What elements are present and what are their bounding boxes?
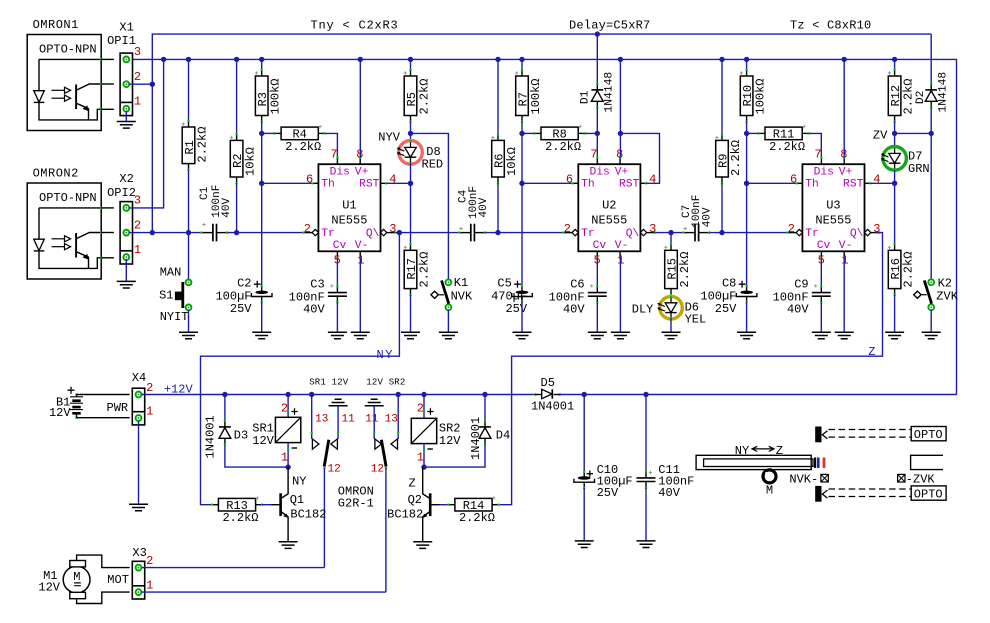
switch K1 NVK limit switch [446, 279, 452, 285]
wire X3 pin2 to SR1 contact 12 [142, 567, 325, 569]
svg-text:2.2kΩ: 2.2kΩ [901, 78, 915, 114]
svg-text:YEL: YEL [685, 312, 707, 326]
svg-text:SR1 12V: SR1 12V [309, 377, 349, 387]
svg-text:12V SR2: 12V SR2 [366, 377, 405, 387]
junction R15 branch [668, 230, 673, 235]
wire V+2 from rail [619, 59, 621, 157]
wire down to C5 [521, 183, 523, 286]
svg-text:NVK-: NVK- [789, 472, 818, 486]
svg-text:NYIT: NYIT [160, 310, 189, 324]
junction ZV node [892, 131, 897, 136]
svg-text:12: 12 [371, 463, 384, 475]
svg-text:3: 3 [873, 222, 880, 236]
resistor R10 100k [746, 59, 748, 69]
switch S1 MAN/NYIT manual trigger [188, 233, 190, 280]
wire timing node down to Th row [261, 133, 263, 183]
LED D8 RED indicator [410, 133, 412, 141]
IC U1 NE555 timer [336, 158, 338, 165]
wire D8 to RST1 node [410, 164, 412, 184]
svg-text:NYV: NYV [378, 131, 400, 145]
wire node down to Th2 [521, 133, 523, 183]
svg-text:MOT: MOT [107, 573, 129, 587]
svg-text:1: 1 [281, 451, 288, 465]
ground C5 [513, 332, 532, 339]
relay SR1 lever to pin 12 [324, 440, 329, 467]
wire top trigger rail (Tny net) [152, 34, 931, 233]
wire NYV node to K1 [411, 133, 449, 279]
relay SR2 contact 11 [373, 406, 375, 439]
wire M1 to X3 pin2 [77, 555, 130, 568]
svg-text:V+: V+ [839, 167, 853, 179]
junction Th3 node [744, 181, 749, 186]
junction SR1 contact 13 [309, 392, 314, 397]
wire R8 left [522, 132, 535, 134]
junction D4 [482, 392, 487, 397]
svg-text:Th: Th [805, 179, 819, 191]
junction R2 bottom [234, 230, 239, 235]
svg-text:U2: U2 [602, 199, 616, 213]
svg-text:DLY: DLY [632, 302, 654, 316]
relay coil SR2 12V [423, 395, 425, 419]
svg-text:1N4148: 1N4148 [604, 72, 616, 113]
svg-text:Q\: Q\ [366, 228, 380, 240]
wire net NY from U1 output to R13 [201, 233, 400, 505]
wire R1 bottom to trigger row [188, 170, 190, 233]
wire C3 to ground [336, 303, 338, 333]
wire C6 to ground [596, 303, 598, 333]
wire R13 to Q1 base [262, 504, 272, 506]
svg-text:K2: K2 [938, 276, 952, 290]
wire X1 pin2 to trigger column [129, 83, 152, 85]
wire R10 bottom to node [746, 122, 748, 134]
wire net Z from U3 output to R14 [499, 233, 883, 505]
ground R16 [885, 332, 904, 339]
wire C8 to ground [746, 302, 748, 332]
svg-text:OPTO: OPTO [914, 487, 943, 501]
transistor Q2 BC182 NPN mirrored [440, 504, 449, 506]
svg-text:Tr: Tr [321, 228, 335, 240]
svg-text:Q\: Q\ [850, 228, 864, 240]
resistor R5 2.2k [410, 59, 412, 69]
svg-text:2: 2 [146, 554, 153, 568]
wire U1 output Q row [395, 232, 460, 234]
slider bar outline [696, 455, 811, 469]
svg-text:1: 1 [357, 253, 364, 267]
junction R3/R4 node [259, 131, 264, 136]
wire C5 to ground [521, 302, 523, 332]
ground V-1 [351, 332, 370, 339]
opto sensor top bracket [815, 427, 821, 443]
svg-text:25V: 25V [230, 302, 252, 316]
wire V-2 to ground [619, 258, 621, 332]
capacitor C11 100nF 40V [645, 395, 647, 472]
svg-text:1: 1 [417, 451, 424, 465]
wire SR2 pin12 to X3.1 [385, 468, 387, 592]
svg-text:D3: D3 [234, 428, 248, 442]
wire RST1 to U1 [386, 182, 410, 184]
svg-text:10kΩ: 10kΩ [505, 147, 519, 176]
svg-text:PWR: PWR [107, 401, 129, 415]
svg-text:12V: 12V [252, 434, 274, 448]
resistor R7 100k [521, 59, 523, 69]
ground V-2 [611, 332, 630, 339]
wire R4 left [262, 132, 275, 134]
capacitor C1 100nF 40V [202, 232, 213, 234]
wire X2 pin3 to +12V rail [129, 59, 163, 208]
svg-text:25V: 25V [597, 486, 619, 500]
svg-text:OPI1: OPI1 [107, 34, 136, 48]
svg-text:C1: C1 [199, 186, 211, 200]
wire +12V distribution row [142, 394, 535, 396]
svg-text:2.2kΩ: 2.2kΩ [769, 140, 805, 154]
wire RST2 tie jog [620, 133, 659, 183]
wire R7 bottom to node [521, 122, 523, 134]
capacitor C10 100uF 25V [583, 395, 585, 472]
svg-text:2.2kΩ: 2.2kΩ [222, 511, 258, 525]
wire RST3 to U3 [870, 182, 894, 184]
junction C11 [643, 392, 648, 397]
wire R17 to ground [410, 295, 412, 332]
junction X1.2 [150, 82, 155, 87]
svg-text:Tr: Tr [805, 228, 819, 240]
wire V+3 from rail [843, 59, 845, 157]
switch K2 ZVK limit switch [928, 279, 934, 285]
junction X2.3 on rail [161, 57, 166, 62]
wire M1 to X3 pin1 [77, 592, 130, 603]
diode D5 1N4001 supply isolation [534, 393, 536, 395]
svg-text:M: M [766, 484, 773, 498]
svg-text:U3: U3 [826, 199, 840, 213]
resistor R14 2.2k base resistor [449, 504, 455, 506]
wire R12 to ZV node [894, 122, 896, 134]
svg-text:Tny < C2xR3: Tny < C2xR3 [311, 18, 399, 32]
junction R10/R11 node [744, 131, 749, 136]
svg-text:1: 1 [134, 243, 141, 257]
junction SR2 coil / Q2 collector [421, 464, 426, 469]
svg-text:2.2kΩ: 2.2kΩ [195, 127, 209, 163]
ground C8 [737, 332, 756, 339]
svg-text:OPTO-NPN: OPTO-NPN [39, 43, 97, 57]
svg-text:V-: V- [615, 240, 629, 252]
wire R5 to LED node [410, 122, 412, 134]
wire K2 to ground [930, 310, 932, 332]
ground C9 [812, 332, 831, 339]
junction NY branch [397, 230, 402, 235]
capacitor C8 100uF 25V polarized [746, 286, 748, 292]
svg-text:D5: D5 [541, 376, 555, 390]
svg-text:1: 1 [134, 95, 141, 109]
svg-text:Cv: Cv [333, 240, 347, 252]
capacitor C9 100nF 40V [820, 258, 822, 287]
svg-text:S1: S1 [159, 288, 173, 302]
wire D2 anode to ZV node [930, 108, 932, 134]
svg-text:7: 7 [814, 148, 821, 162]
svg-text:Tz < C8xR10: Tz < C8xR10 [790, 18, 871, 32]
diode D1 1N4148 from trigger rail [596, 34, 598, 84]
svg-text:GRN: GRN [908, 162, 930, 176]
svg-text:M: M [73, 570, 80, 584]
svg-text:MAN: MAN [160, 266, 182, 280]
wire node down to Th3 [746, 133, 748, 183]
IC U2 NE555 timer [596, 158, 598, 165]
wire R3 bottom to node [261, 122, 263, 134]
ground C10 [575, 541, 594, 548]
svg-text:OPTO: OPTO [914, 428, 943, 442]
relay SR2 lever to pin 12 [381, 440, 386, 467]
junction RST3 node [892, 181, 897, 186]
svg-text:7: 7 [330, 148, 337, 162]
ground Q1 emitter [279, 542, 298, 549]
svg-text:U1: U1 [342, 199, 356, 213]
svg-text:25V: 25V [715, 302, 737, 316]
svg-text:Q\: Q\ [626, 228, 640, 240]
svg-text:1N4148: 1N4148 [938, 72, 950, 113]
vane ZVK shape [911, 455, 943, 469]
wire Th1 row to U1 [262, 182, 313, 184]
wire V-1 to ground [359, 258, 361, 332]
svg-text:40V: 40V [303, 302, 325, 316]
motor pinion M [763, 470, 776, 483]
svg-text:2.2kΩ: 2.2kΩ [729, 140, 743, 176]
svg-text:2: 2 [788, 222, 795, 236]
wire C2 to ground [261, 302, 263, 332]
wire C9 to ground [820, 303, 822, 333]
wire D1 anode to Dis2 node [596, 108, 598, 134]
label OPTO top box [911, 427, 946, 441]
svg-text:X2: X2 [119, 172, 133, 186]
svg-text:7: 7 [590, 148, 597, 162]
wire K1 to ground [447, 310, 449, 332]
dashed link to OPTO bottom [829, 488, 911, 490]
LED D7 GRN indicator [894, 133, 896, 146]
junction R7/R8 node [519, 131, 524, 136]
junction V+2 / RST2 tie [618, 131, 623, 136]
relay SR2 contact 13 [397, 395, 399, 439]
svg-text:G2R-1: G2R-1 [338, 496, 374, 510]
ground X4 [129, 504, 148, 511]
svg-text:2.2kΩ: 2.2kΩ [459, 511, 495, 525]
LED D6 YEL delay indicator [670, 295, 672, 297]
resistor R15 2.2k [670, 233, 672, 245]
wire C10 to ground [583, 488, 585, 541]
svg-text:3: 3 [649, 222, 656, 236]
wire U2 output Q row [655, 232, 684, 234]
junction RST1 node [408, 181, 413, 186]
diode D4 1N4001 flyback [484, 395, 486, 421]
svg-text:2: 2 [134, 218, 141, 232]
label OPTO bottom box [911, 486, 946, 500]
wire +12V row after D5 [560, 394, 957, 396]
label ZVK sensor [898, 474, 905, 482]
capacitor C3 100nF 40V [336, 258, 338, 287]
svg-text:OMRON1: OMRON1 [33, 18, 79, 32]
resistor R6 10k [497, 59, 499, 134]
svg-text:6: 6 [566, 173, 573, 187]
wire R2 bottom to trigger row [236, 183, 238, 232]
ground C3 [328, 332, 347, 339]
dashed link to OPTO top [829, 429, 911, 431]
junction Th2 node [519, 181, 524, 186]
svg-text:13: 13 [315, 413, 328, 425]
svg-text:100kΩ: 100kΩ [269, 78, 283, 114]
svg-text:NE555: NE555 [331, 213, 367, 227]
ground X1 [117, 122, 136, 129]
svg-text:2.2kΩ: 2.2kΩ [678, 252, 692, 288]
resistor R4 2.2k [275, 132, 281, 134]
svg-text:-ZVK: -ZVK [906, 472, 936, 486]
resistor R1 2.2k [188, 59, 190, 120]
svg-text:6: 6 [790, 173, 797, 187]
svg-text:NY: NY [292, 474, 306, 488]
svg-text:V-: V- [839, 240, 853, 252]
svg-text:40V: 40V [221, 197, 233, 217]
wire timing node down to C2 [261, 183, 263, 286]
svg-text:2: 2 [304, 222, 311, 236]
wire R6 bottom [497, 183, 499, 232]
relay coil SR1 12V [287, 395, 289, 418]
svg-text:4: 4 [873, 173, 880, 187]
svg-text:NE555: NE555 [591, 213, 627, 227]
svg-text:NY: NY [377, 348, 394, 362]
svg-text:Tr: Tr [581, 228, 595, 240]
ground C11 [637, 541, 656, 548]
ground X2 [117, 281, 136, 288]
wire +12V supply rail [132, 59, 957, 394]
resistor R11 2.2k [759, 132, 765, 134]
resistor R3 100k [261, 59, 263, 69]
opto sensor bottom bracket [815, 486, 821, 502]
svg-text:12V: 12V [38, 580, 60, 594]
slider end stripes [814, 458, 816, 468]
ground C2 [252, 332, 271, 339]
svg-text:1: 1 [841, 253, 848, 267]
svg-text:12: 12 [328, 463, 341, 475]
wire D6 to ground [670, 319, 672, 333]
junction trigger column [150, 230, 155, 235]
svg-text:D2: D2 [915, 91, 927, 105]
wire Th2 row to U2 [522, 182, 573, 184]
svg-text:K1: K1 [454, 276, 468, 290]
IC U3 NE555 timer [820, 158, 822, 165]
svg-text:2.2kΩ: 2.2kΩ [285, 140, 321, 154]
svg-text:V+: V+ [355, 167, 369, 179]
svg-text:2.2kΩ: 2.2kΩ [417, 252, 431, 288]
svg-text:X1: X1 [119, 20, 133, 34]
mini ground SR1 pin 11 [329, 399, 348, 406]
svg-text:RST: RST [843, 179, 864, 191]
svg-text:Q2: Q2 [408, 493, 422, 507]
svg-text:11: 11 [365, 413, 379, 425]
svg-text:Th: Th [581, 179, 595, 191]
wire B1 to X4 [77, 394, 130, 396]
ground R17 [401, 332, 420, 339]
svg-text:OPI2: OPI2 [107, 186, 136, 200]
wire C1 to U1 Tr pin [227, 232, 304, 234]
junction Dis2/D1 node [595, 131, 600, 136]
svg-text:1: 1 [146, 404, 153, 418]
svg-text:2.2kΩ: 2.2kΩ [545, 140, 581, 154]
svg-text:10kΩ: 10kΩ [243, 147, 257, 176]
capacitor C5 470uF 25V polarized [521, 286, 523, 292]
capacitor C7 100nF 40V coupling [684, 232, 695, 234]
wire trigger row (X2.2 to C1) [129, 232, 201, 234]
svg-text:2: 2 [134, 70, 141, 84]
motor M1 12V [63, 566, 90, 593]
junction C10 [582, 392, 587, 397]
wire D4 anode to coil bottom [424, 445, 485, 467]
wire C4 to U2 Tr pin [485, 232, 564, 234]
svg-text:Th: Th [321, 179, 335, 191]
svg-text:2: 2 [281, 401, 288, 415]
wire SR1 coil bottom [287, 443, 289, 468]
svg-text:Dis: Dis [330, 167, 350, 179]
wire down to C8 [746, 183, 748, 286]
ground Q2 emitter [413, 542, 432, 549]
svg-text:12V: 12V [439, 434, 461, 448]
wire X1 pin1 to ground [125, 111, 127, 122]
wire X2 pin1 to ground [125, 260, 127, 282]
wire C7 to U3 Tr pin [709, 232, 788, 234]
svg-text:V+: V+ [615, 167, 629, 179]
svg-text:RST: RST [619, 179, 640, 191]
svg-text:X4: X4 [132, 371, 146, 385]
svg-text:Z: Z [409, 477, 416, 491]
wire D7 to RST3 node [894, 170, 896, 183]
svg-text:40V: 40V [478, 197, 490, 217]
junction D3 [222, 392, 227, 397]
svg-text:3: 3 [134, 194, 141, 208]
junction SR2 contact 13 [396, 392, 401, 397]
transistor Q1 BC182 NPN [272, 504, 280, 506]
wire X3 pin1 to SR2 contact 12 [142, 591, 386, 593]
ground V-3 [835, 332, 854, 339]
diode D2 1N4148 from trigger rail [930, 34, 932, 84]
wire R16 to ground [894, 295, 896, 332]
junction SR1 coil [285, 392, 290, 397]
svg-text:D4: D4 [496, 428, 510, 442]
svg-text:1N4001: 1N4001 [469, 417, 483, 460]
svg-text:2: 2 [564, 222, 571, 236]
junction SR1 coil / Q1 collector [285, 464, 290, 469]
wire down to K2 [930, 133, 932, 279]
svg-text:Q1: Q1 [290, 493, 304, 507]
svg-text:1N4001: 1N4001 [531, 399, 574, 413]
svg-text:BC182: BC182 [290, 508, 326, 522]
svg-text:40V: 40V [563, 302, 585, 316]
wire X4 pin1 to ground [138, 421, 140, 504]
svg-text:2.2kΩ: 2.2kΩ [417, 78, 431, 114]
svg-text:D1: D1 [580, 90, 592, 104]
capacitor C2 100uF 25V polarized [261, 286, 263, 292]
svg-text:12V: 12V [49, 406, 71, 420]
resistor R9 2.2k [721, 59, 723, 134]
svg-text:100kΩ: 100kΩ [753, 78, 767, 114]
svg-text:25V: 25V [505, 302, 527, 316]
wire C11 to ground [645, 488, 647, 541]
relay SR1 contact 11 [337, 406, 339, 439]
wire R11 right to Dis3 [809, 133, 822, 157]
ground D6 [662, 332, 681, 339]
mini ground SR2 pin 11 [365, 399, 384, 406]
resistor R12 2.2k [894, 59, 896, 69]
wire S1 to ground [188, 310, 190, 332]
wire ZV node to D2/K2 column [895, 132, 932, 134]
wire SR2 coil bottom [423, 444, 425, 468]
svg-text:Cv: Cv [593, 240, 607, 252]
svg-text:3: 3 [134, 45, 141, 59]
svg-text:4: 4 [389, 173, 396, 187]
svg-text:X3: X3 [132, 546, 146, 560]
